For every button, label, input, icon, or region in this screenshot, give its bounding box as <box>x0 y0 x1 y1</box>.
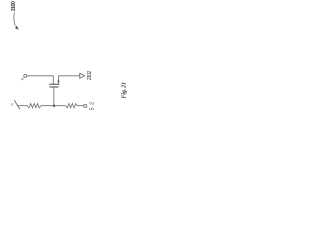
node label 2102 <box>87 71 93 81</box>
svg-text:2100: 2100 <box>11 1 17 11</box>
transistor Q1 drain lead <box>52 76 54 85</box>
node label 2100 <box>11 1 17 11</box>
input terminal circle <box>24 74 27 77</box>
leader arrow for 2100 <box>14 12 15 25</box>
transistor Q1 source arrowhead <box>57 79 59 82</box>
resistor R1 <box>27 104 41 108</box>
figure caption Fig. 21 <box>122 82 128 99</box>
svg-text:sr: sr <box>11 103 15 107</box>
wire: input to transistor drain <box>27 75 53 77</box>
svg-text:2102: 2102 <box>87 71 93 81</box>
svg-text:Fig. 21: Fig. 21 <box>122 82 128 99</box>
wire: bottom rail left segment <box>18 105 27 107</box>
transistor Q1 gate lead <box>53 87 55 106</box>
junction dot <box>53 104 56 107</box>
output open arrowhead <box>80 73 85 78</box>
wire: source to output arrow <box>59 75 80 77</box>
transistor Q1 channel bar <box>49 83 59 85</box>
svg-text:52: 52 <box>90 102 96 111</box>
transistor Q1 gate bar <box>50 86 59 88</box>
arrowhead of 2100 leader <box>15 26 19 30</box>
bottom output terminal circle <box>84 104 87 107</box>
wire: bottom rail middle segment <box>41 105 66 107</box>
transistor Q1 source lead <box>58 76 60 85</box>
wire: bottom rail right segment <box>77 105 84 107</box>
bottom terminal label <box>90 102 96 111</box>
bottom-left terminal slash <box>14 100 20 109</box>
resistor R2 <box>66 104 78 108</box>
label near input terminal <box>19 77 24 81</box>
svg-text:s.: s. <box>19 77 24 81</box>
